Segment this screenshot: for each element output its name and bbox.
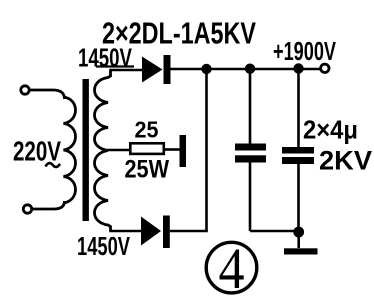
- wire D2 to corner: [170, 230, 208, 233]
- svg-text:1450V: 1450V: [78, 43, 132, 73]
- capacitor C2 top plate: [282, 147, 314, 154]
- diode D1 triangle: [142, 57, 163, 83]
- svg-text:1450V: 1450V: [77, 231, 130, 261]
- transformer T1 core: [83, 79, 89, 221]
- wire secondary bottom to diode D2: [109, 230, 141, 233]
- svg-text:4: 4: [219, 236, 245, 301]
- resistor R1 25 ohm: [130, 143, 164, 154]
- node junction 3: [293, 63, 303, 73]
- capacitor C1 bottom lead: [249, 162, 252, 231]
- capacitor C1 bottom plate: [235, 155, 266, 162]
- capacitor C1 top plate: [235, 144, 266, 151]
- svg-text:25: 25: [135, 117, 159, 143]
- svg-text:+1900V: +1900V: [273, 36, 336, 66]
- terminal bar after resistor: [180, 135, 187, 167]
- wire secondary top to diode D1: [109, 69, 142, 72]
- ~ (AC tilde): [46, 163, 61, 167]
- wire primary bottom to terminal: [32, 201, 65, 209]
- wire terminal to primary top: [30, 90, 65, 99]
- svg-text:220V: 220V: [13, 136, 61, 167]
- figure number circle 4: [206, 242, 257, 293]
- svg-text:2×4μ: 2×4μ: [303, 115, 358, 145]
- transformer T1 primary terminal (top): [21, 86, 29, 94]
- underline of 1450V: [96, 65, 134, 67]
- node junction 1: [201, 64, 211, 74]
- output terminal +1900V: [321, 64, 329, 72]
- transformer T1 secondary winding (top half): [95, 71, 111, 151]
- capacitor C2 bottom plate: [282, 157, 314, 164]
- wire top rail: [171, 68, 321, 71]
- svg-text:25W: 25W: [125, 156, 170, 184]
- transformer T1 primary winding: [64, 97, 76, 203]
- diode D1 cathode bar: [164, 55, 171, 84]
- wire bottom rail C1 to ground node: [250, 230, 299, 233]
- diode D2 triangle: [141, 217, 161, 246]
- transformer T1 primary terminal (bottom): [23, 205, 31, 213]
- capacitor C2 bottom lead: [297, 164, 300, 232]
- capacitor C2 top lead: [297, 69, 300, 149]
- transformer T1 secondary winding (bottom half): [95, 151, 111, 232]
- ground: [284, 248, 318, 254]
- wire tap to resistor: [107, 149, 130, 152]
- svg-text:2KV: 2KV: [319, 146, 372, 176]
- node ground junction: [293, 227, 304, 238]
- wire resistor to bar: [165, 148, 180, 151]
- diode D2 cathode bar: [163, 216, 170, 249]
- node junction 2: [245, 63, 255, 73]
- wire D2 output up to top rail: [205, 69, 208, 231]
- wire stub to ground: [297, 232, 300, 248]
- capacitor C1 top lead: [249, 69, 252, 144]
